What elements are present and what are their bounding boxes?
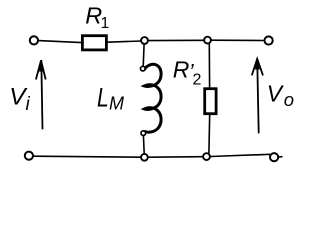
Vo arrow head [252,59,263,76]
wire bottom-left terminal to node C [34,156,142,157]
svg-text:2: 2 [193,72,202,89]
wire stub right of bottom-right terminal [279,156,283,158]
node D junction circle [203,153,210,160]
Vo arrow shaft [257,59,259,134]
svg-text:R: R [173,57,190,83]
inductor LM top terminal circle [141,66,146,71]
top-right terminal [265,36,273,44]
wire inductor bottom to node C [142,135,145,153]
resistor R1 [82,36,106,50]
resistor R'2 [205,89,216,114]
wire node B down to R'2 [208,44,210,88]
wire node D to bottom-right terminal [211,154,271,156]
Vi arrow head [36,61,46,80]
wire node A to node B [148,39,204,41]
node A junction circle [141,37,148,44]
bottom-left terminal [25,152,33,160]
svg-text:o: o [284,89,294,110]
svg-text:1: 1 [101,15,110,32]
svg-text:L: L [97,83,109,113]
bottom-right terminal [270,153,278,161]
top-left terminal [30,36,38,44]
wire node C to node D [149,156,204,159]
Vo arrow head core [255,58,260,70]
wire R1 to node A [108,41,142,42]
node B junction circle [204,37,211,44]
svg-text:M: M [109,94,124,114]
svg-text:V: V [267,80,285,106]
node C junction circle [141,154,148,161]
inductor LM bottom terminal circle [141,131,146,136]
wire node B to top-right terminal [211,39,265,41]
Vi arrow head core [39,60,44,72]
Vi arrow shaft [41,60,42,129]
wire node A down to inductor [142,44,145,66]
wire R'2 bottom to node D [208,115,211,154]
wire top-left terminal to R1 [39,41,82,43]
inductor LM coil [144,64,161,132]
